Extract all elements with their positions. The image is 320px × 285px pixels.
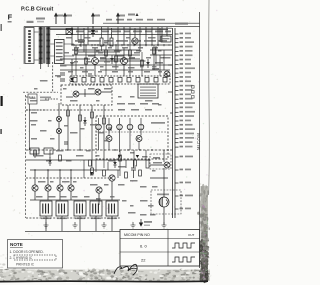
diodes scattered D2-D7 [70, 62, 74, 65]
small box upper-left area [30, 148, 39, 154]
relay RY5 [106, 201, 118, 216]
page edge line [208, 0, 211, 195]
transistor Q5 inside M1 [73, 91, 79, 97]
label band y40 (switch names) [75, 40, 85, 42]
label DIA PUMP [151, 122, 165, 124]
transistor Q6 inside M1 [95, 89, 101, 95]
wire: transformer primary feeds [34, 32, 39, 60]
connector CN1 body [173, 28, 176, 218]
dashed bus y218 [26, 217, 120, 219]
module box M2 (dashed) [96, 116, 168, 159]
wire: driver row bus y178 [26, 177, 109, 179]
terminal block TB1 with vertical label [25, 28, 34, 64]
ground symbol G5 [162, 222, 167, 228]
transistor Q4 [164, 71, 170, 77]
capacitor C1 [78, 40, 84, 42]
connector CN1 pins 1-26 with net labels [175, 33, 179, 35]
wire: schematic bottom bus [25, 231, 200, 233]
svg-text:PRINTED IC: PRINTED IC [16, 263, 35, 267]
wire: top feed y23 [103, 22, 200, 24]
IC2 control box [138, 84, 158, 98]
wire: left boundary upper [23, 27, 25, 65]
svg-text:NOTE: NOTE [10, 242, 23, 247]
lamp LP1 [56, 116, 61, 121]
wire: bus y150 [26, 149, 170, 151]
wire: extra top verticals [78, 27, 162, 52]
regulator IC1 [55, 40, 65, 64]
svg-text:F: F [8, 13, 13, 22]
resistor R20 [146, 160, 149, 168]
relay RY4 [90, 201, 102, 216]
waveform row2 [172, 257, 195, 262]
wire: mesh mid verticals [76, 45, 160, 76]
capacitor C2 cluster [60, 73, 65, 81]
wire: verticals mid [68, 105, 104, 160]
fuse F2 with arrow terminal [64, 13, 66, 24]
svg-text:22: 22 [141, 258, 146, 263]
wire: lower mesh horizontals [26, 160, 150, 200]
value labels near Q2 Q3 [88, 55, 95, 57]
wire: relay outputs to bottom bus [46, 216, 112, 231]
capacitors scattered [64, 74, 112, 144]
wire: M1 internal [66, 89, 112, 97]
wire: Q2 Q3 emitters [95, 48, 146, 76]
connector key squares [192, 86, 195, 89]
wire: schematic top bus [24, 26, 200, 28]
wire: S1 to mesh [26, 97, 59, 110]
label AC240V [27, 21, 34, 23]
transformer T1 primary winding [40, 27, 42, 64]
key switch SW3 [117, 124, 123, 130]
relay RY3 [74, 201, 86, 216]
wire: upper mesh [72, 27, 167, 52]
wire: buzzer circuit [150, 150, 168, 225]
relay box K1 [161, 36, 171, 42]
buzzer BZ1 [159, 197, 169, 207]
wire: driver verticals [35, 170, 112, 205]
wire: bus y110 dashed [26, 109, 114, 111]
arrow above table [139, 219, 142, 226]
wire: feeds into CN1 [168, 45, 173, 150]
left edge small mark [1, 24, 2, 31]
svg-text:OUT: OUT [188, 233, 195, 237]
transistor Q9 [57, 185, 63, 191]
labels mid-left column [31, 112, 37, 114]
diode D9 [90, 172, 93, 175]
snubber box X1 [66, 29, 73, 35]
wire: mesh y55 y70 [60, 55, 172, 70]
diode D1 [92, 27, 94, 37]
wire: drawing frame right [199, 12, 201, 268]
value labels mid [117, 103, 125, 105]
junction dots [71, 44, 72, 45]
connector CN1 pins 27-34 with net labels [175, 156, 179, 158]
svg-text:6. 0: 6. 0 [140, 244, 147, 249]
wire: right-mid mesh [156, 28, 164, 70]
svg-text:1. DOOR IS OPENED.: 1. DOOR IS OPENED. [10, 250, 44, 254]
wire: dashed vertical x52.7 [52, 62, 54, 92]
diode arrow down A1 [118, 152, 121, 158]
key switch SW6 [106, 136, 112, 142]
ground symbol G1 [44, 222, 49, 228]
wire: top parallel buses [50, 28, 172, 34]
wire: solid vertical x29.3 [28, 104, 30, 150]
checked-by signature [114, 264, 137, 275]
wire: matrix dashed y132 [96, 131, 168, 133]
svg-text:MICOM: MICOM [196, 133, 201, 150]
transistor Q11 [96, 187, 102, 193]
transistor Q1 [132, 38, 138, 44]
wire: left dashed boundary [25, 95, 27, 218]
ground symbol G3 [102, 222, 107, 228]
relay RY2 [56, 201, 68, 216]
key switch SW2 [106, 124, 112, 130]
labels scatter y47-74 [74, 47, 79, 49]
component value labels (illegible) [66, 37, 72, 39]
wire: extra bottom verticals [84, 160, 126, 178]
NOTE box [8, 240, 63, 269]
transistor Q12 [109, 175, 115, 181]
net labels row [76, 31, 84, 33]
diode D8 down [71, 68, 73, 82]
labels above top feed [106, 19, 112, 21]
tick marks on bus y45 [73, 44, 75, 46]
svg-text:P.C.B Circuit: P.C.B Circuit [21, 6, 53, 12]
module box M1 (dashed) [61, 85, 112, 105]
transistor Q3 [121, 58, 128, 65]
wire: bus y52 [78, 51, 120, 53]
left film edge mark 2 [0, 129, 2, 134]
key switch SW7 [136, 136, 142, 142]
wire: T1 secondary to IC1 [50, 44, 74, 56]
svg-text:2.: 2. [10, 256, 13, 260]
wire: T1 bottom leads [41, 64, 49, 70]
transistor Q13 [164, 162, 170, 168]
fuse F3 with arrow terminal [92, 13, 94, 24]
waveform row1 [172, 243, 195, 248]
table frame [120, 230, 200, 267]
buzzer module box (dashed) [151, 190, 181, 214]
lamp LP2 [56, 128, 61, 133]
label mid-top [128, 14, 135, 16]
timer module box (dashed) [150, 154, 171, 169]
key switch SW1 [96, 124, 102, 130]
svg-text:HYBRID IC: HYBRID IC [16, 256, 33, 260]
label top-right spec [175, 23, 188, 25]
wire: bus y65 [60, 64, 172, 66]
wire: bus y50 y59 [60, 50, 172, 59]
ground symbol G4 [131, 222, 136, 228]
fuse F4 with arrow terminal [117, 13, 119, 24]
capacitor C9 [131, 168, 136, 170]
page border bottom [0, 280, 208, 282]
key switch SW5 [138, 124, 144, 130]
resistor R1 [100, 38, 103, 46]
left film edge mark [1, 96, 3, 106]
transistor Q8 [45, 185, 51, 191]
resistors scattered R3-R22 [75, 48, 78, 54]
connector pad strip CN2 (dashed) [70, 76, 170, 84]
fuse F1 with arrow terminal [55, 13, 57, 24]
label LED display [40, 97, 51, 99]
wire: bus y170 [30, 169, 120, 171]
diode arrow down A2 [136, 152, 139, 158]
wire: lower mesh verticals [35, 150, 146, 176]
key switch SW4 [127, 124, 133, 130]
wire: dashed y92 [23, 91, 58, 93]
relay RY1 [40, 201, 52, 216]
wire: bus y45 [72, 44, 170, 46]
sensor box S1 [28, 94, 37, 104]
transistor Q10 [68, 185, 74, 191]
transistor Q2 [92, 58, 99, 65]
transformer T1 secondary winding [47, 27, 49, 64]
transformer T1 core [44, 27, 45, 64]
wire: lamp chain [58, 103, 60, 150]
svg-text:MICOM PIN NO: MICOM PIN NO [124, 233, 150, 237]
wire: matrix verticals [99, 118, 142, 152]
ground symbol G2 [73, 222, 78, 228]
resistor R2 [110, 38, 113, 46]
transistor Q7 [32, 185, 38, 191]
